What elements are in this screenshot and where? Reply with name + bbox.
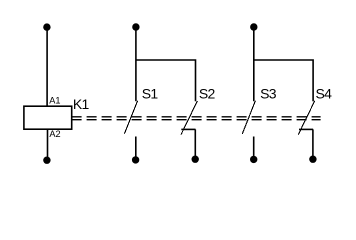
- wire S3 bottom: [253, 137, 255, 160]
- node bottom-5: [309, 156, 316, 163]
- switch S2 seat: [181, 128, 195, 130]
- wire coil bottom: [47, 129, 49, 160]
- wire coil top: [46, 27, 48, 107]
- svg-text:S2: S2: [199, 86, 216, 102]
- mechanical linkage dashed line lower: [72, 119, 321, 121]
- switch S3 blade: [242, 101, 255, 134]
- svg-text:S3: S3: [260, 86, 277, 102]
- svg-text:K1: K1: [73, 96, 90, 112]
- switch S1 blade: [124, 101, 137, 134]
- switch S4 seat: [299, 128, 313, 130]
- wire branch S3 to S4: [254, 60, 313, 101]
- node bottom-1: [43, 157, 50, 164]
- switch S2 blade: [181, 101, 197, 135]
- svg-text:A2: A2: [49, 129, 60, 139]
- svg-text:S1: S1: [142, 86, 159, 102]
- switch S4 blade: [298, 101, 314, 135]
- wire S1 top: [135, 27, 137, 102]
- node bottom-2: [132, 156, 139, 163]
- coil K1: [24, 106, 72, 129]
- wire S1 bottom: [135, 137, 137, 160]
- node bottom-4: [250, 156, 257, 163]
- wire S2 bottom: [194, 129, 196, 159]
- node top-right: [250, 23, 257, 30]
- node bottom-3: [192, 156, 199, 163]
- node top-middle: [132, 23, 139, 30]
- svg-text:S4: S4: [316, 86, 333, 102]
- node top-left: [43, 23, 50, 30]
- wire S3 top: [253, 27, 255, 102]
- wire branch S1 to S2: [136, 60, 196, 101]
- mechanical linkage dashed line upper: [72, 116, 321, 118]
- wire S4 bottom: [312, 129, 314, 159]
- svg-text:A1: A1: [49, 96, 60, 106]
